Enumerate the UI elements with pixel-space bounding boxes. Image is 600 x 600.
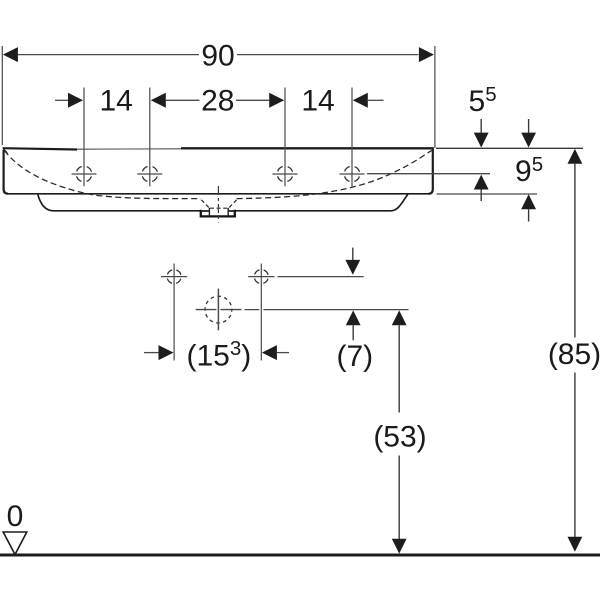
washbasin top edge thick right segment (181, 147, 434, 149)
fixing hole level line A (278, 276, 364, 278)
dimension 28 arrowhead left (151, 93, 166, 108)
dimension 7 lower arrow stem (352, 325, 354, 340)
dimension 90 extension line right (434, 46, 436, 148)
dimension 9.5 lower arrow stem (528, 209, 530, 221)
dimension 14 right stem (368, 99, 384, 101)
dimension 53 line upper part (398, 325, 400, 412)
tap hole level reference line (367, 173, 490, 175)
siphon level line B (245, 309, 409, 311)
extension line hole 4 (351, 88, 353, 187)
washbasin bottom rim edge (7, 193, 429, 195)
dimension 53 line lower part (398, 456, 400, 540)
floor line (0, 554, 600, 557)
top reference line right (436, 147, 583, 149)
fixing hole left extension line down (173, 290, 175, 361)
extension line hole 2 (149, 88, 151, 187)
svg-text:(153): (153) (187, 337, 252, 373)
dimension 15.3 right stem (277, 352, 289, 354)
drain hidden diagonal left (201, 200, 209, 208)
tap hole 1 crosshair (72, 166, 97, 182)
hidden bowl contour right (237, 150, 433, 199)
washbasin top edge thin middle segment (77, 148, 182, 150)
siphon circle dashed (205, 296, 232, 323)
svg-text:0: 0 (7, 500, 24, 533)
washbasin outline left edge (4, 150, 8, 194)
svg-text:(85): (85) (548, 338, 600, 371)
dimension 28 arrowhead right (269, 93, 284, 108)
dimension 28 line right part (236, 99, 269, 101)
dimension 90 arrowhead left (3, 47, 18, 62)
dimension 7 upper arrow stem (352, 248, 354, 261)
hidden bowl contour left (5, 151, 202, 199)
dimension 7 lower arrowhead (346, 310, 361, 325)
dimension 14 right arrowhead (353, 93, 368, 108)
dimension 90 extension line left (1, 46, 3, 145)
washbasin top-left corner tick (3, 149, 7, 154)
drain flange (201, 210, 235, 217)
drain centerline (217, 186, 219, 223)
drain flange top segments (201, 210, 235, 212)
dimension 15.3 left arrowhead (159, 345, 174, 360)
dimension 9.5 lower arrowhead (521, 194, 536, 209)
dimension 5.5 upper arrow stem (480, 119, 482, 133)
drain hidden diagonal right (229, 200, 237, 208)
drain tailpiece right edge (227, 208, 229, 216)
dimension 14 left arrowhead (68, 93, 83, 108)
dimension 5.5 upper arrowhead (474, 133, 489, 148)
svg-text:28: 28 (201, 85, 234, 118)
dimension 53 lower arrowhead (392, 539, 407, 554)
dimension 9.5 upper arrow stem (528, 119, 530, 133)
svg-text:(7): (7) (336, 340, 373, 373)
dimension 53 upper arrowhead (392, 310, 407, 325)
washbasin top edge thick left segment (3, 148, 77, 149)
dimension 7 upper arrowhead (345, 260, 360, 275)
dimension 90 line left part (18, 54, 199, 56)
fixing hole right extension line down (260, 290, 262, 361)
tap hole 2 crosshair (137, 166, 162, 182)
datum triangle (3, 532, 27, 555)
dimension 90 line right part (237, 54, 418, 56)
drain tailpiece left edge (208, 208, 210, 216)
dimension 15.3 left stem (144, 352, 159, 354)
siphon crosshair vertical (217, 289, 219, 331)
dimension 85 line lower part (574, 373, 576, 538)
extension line hole 3 (284, 88, 286, 187)
tap hole 3 crosshair (273, 166, 298, 182)
fixing hole right crosshair (248, 264, 274, 291)
dimension 85 line upper part (574, 164, 576, 338)
apron underside left step (38, 195, 201, 211)
tap hole 4 crosshair (340, 166, 365, 182)
dimension 5.5 lower arrowhead (474, 175, 489, 190)
dimension 28 line left part (166, 99, 200, 101)
dimension 9.5 upper arrowhead (521, 133, 536, 148)
apron underside right segment (235, 194, 408, 210)
dimension 5.5 lower arrow stem (480, 190, 482, 202)
dimension 85 upper arrowhead (568, 149, 583, 164)
extension line hole 1 (83, 88, 85, 187)
svg-text:14: 14 (301, 85, 334, 118)
siphon crosshair horizontal (196, 309, 242, 311)
fixing hole left crosshair (161, 264, 187, 291)
svg-text:14: 14 (100, 85, 133, 118)
dimension 14 left stem (55, 99, 69, 101)
drain hidden bottom (210, 207, 228, 209)
washbasin right edge (428, 148, 432, 193)
svg-text:90: 90 (201, 39, 234, 72)
basin bottom reference line right (437, 193, 538, 195)
dimension 15.3 right arrowhead (262, 345, 277, 360)
svg-text:(53): (53) (373, 420, 426, 453)
dimension 85 lower arrowhead (568, 537, 583, 552)
dimension 90 arrowhead right (419, 47, 434, 62)
